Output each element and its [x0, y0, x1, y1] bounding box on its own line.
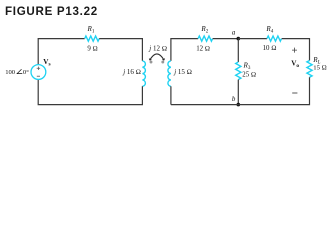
- wire: RL bottom to bottom-right corner, bottom wire back to left corner of right mesh: [171, 77, 310, 104]
- polarity dot L2: [161, 61, 164, 64]
- source plus: [37, 67, 40, 70]
- label plus of Vo: [292, 48, 297, 53]
- svg-text:10 Ω: 10 Ω: [263, 45, 277, 52]
- polarity dot L1: [150, 61, 153, 64]
- svg-text:FIGURE P13.22: FIGURE P13.22: [5, 5, 98, 18]
- inductor L2 j15 coil: [168, 61, 171, 86]
- source minus: [37, 75, 40, 77]
- resistor RL zigzag vertical: [307, 61, 312, 78]
- svg-text:25 Ω: 25 Ω: [242, 72, 256, 79]
- wire: right mesh left top corner to coil L2: [171, 39, 198, 61]
- wire: R4 to top-right corner down to RL: [282, 39, 310, 61]
- wire: left mesh top (source top to R1): [38, 39, 84, 65]
- node a dot: [237, 37, 241, 41]
- svg-text:Vo: Vo: [291, 60, 299, 69]
- wire: coil L2 bottom down to right mesh bottom left corner: [170, 86, 172, 104]
- wire: R1 to left-mesh top-right corner, down to coil L1: [99, 39, 142, 61]
- svg-text:100: 100: [5, 69, 16, 76]
- wire: node a to R4: [238, 38, 267, 40]
- resistor R3 zigzag vertical: [237, 39, 239, 62]
- svg-text:12 Ω: 12 Ω: [196, 45, 210, 52]
- mutual coupling arrow j12: [150, 54, 164, 60]
- svg-text:b: b: [232, 96, 236, 103]
- svg-text:R3: R3: [243, 62, 251, 71]
- svg-text:0°: 0°: [23, 69, 29, 76]
- svg-text:j 16 Ω: j 16 Ω: [122, 68, 141, 76]
- resistor R1 zigzag: [85, 36, 100, 41]
- svg-text:9 Ω: 9 Ω: [87, 45, 97, 52]
- svg-text:15 Ω: 15 Ω: [313, 65, 327, 72]
- label minus of Vo: [292, 92, 297, 94]
- inductor L1 j16 coil: [142, 61, 145, 86]
- wire: R3 to node b: [237, 80, 239, 105]
- resistor R2 zigzag: [198, 36, 213, 41]
- svg-text:j 15 Ω: j 15 Ω: [173, 68, 192, 76]
- svg-text:R2: R2: [200, 25, 208, 34]
- wire: R2 to node a: [213, 38, 239, 40]
- svg-text:Vs: Vs: [43, 58, 50, 67]
- svg-text:a: a: [232, 29, 236, 36]
- source Vs circle: [31, 65, 46, 80]
- wire: coil L1 bottom to left mesh bottom, to source bottom: [38, 79, 142, 104]
- svg-text:j 12 Ω: j 12 Ω: [148, 44, 167, 52]
- resistor R4 zigzag: [267, 36, 282, 41]
- node b dot: [237, 103, 241, 107]
- svg-text:R1: R1: [87, 25, 95, 34]
- svg-text:R4: R4: [265, 25, 273, 34]
